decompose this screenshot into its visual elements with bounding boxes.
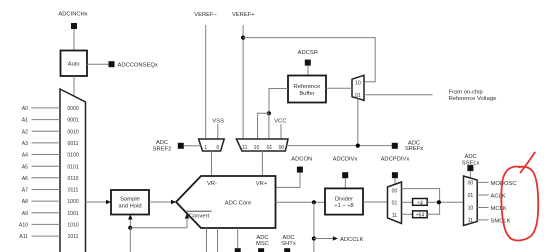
wire trigger to Convert — [130, 219, 187, 228]
wire ACLK stub — [477, 194, 488, 196]
svg-text:1000: 1000 — [67, 199, 78, 205]
wire Sample and Hold to core — [149, 201, 172, 203]
wire Auto to input mux — [73, 76, 75, 96]
VR+ mux — [236, 139, 288, 151]
wire ADC SREFx select line — [286, 145, 392, 147]
svg-text:ADC: ADC — [256, 235, 268, 241]
svg-text:ACLK: ACLK — [491, 193, 506, 199]
svg-text:01: 01 — [392, 200, 398, 206]
svg-text:ADCPDIVx: ADCPDIVx — [381, 156, 410, 162]
junction buffer output — [267, 111, 271, 115]
wire ADCCLK down — [313, 202, 315, 252]
pin Convert label with overline — [187, 210, 212, 212]
svg-text:10: 10 — [468, 205, 474, 211]
register bit square ADCCONSEQx — [109, 61, 115, 67]
register bit square ADCINCHx — [71, 23, 77, 29]
wire divide by 64 to junction — [427, 202, 439, 214]
svg-text:0100: 0100 — [67, 153, 78, 159]
svg-text:SMCLK: SMCLK — [491, 218, 511, 224]
svg-text:Divider: Divider — [335, 196, 353, 202]
arrowhead up into Convert — [185, 214, 190, 219]
svg-text:1011: 1011 — [68, 234, 79, 240]
input A6 wire — [32, 177, 61, 179]
svg-text:Reference: Reference — [294, 84, 321, 90]
svg-text:00: 00 — [468, 180, 474, 186]
arrowhead into core — [171, 200, 176, 205]
svg-text:1: 1 — [204, 145, 207, 151]
input A10 wire — [32, 223, 61, 225]
input A0 wire — [32, 107, 61, 109]
svg-text:÷4: ÷4 — [417, 200, 423, 206]
svg-text:A5: A5 — [22, 164, 28, 170]
input A2 wire — [32, 130, 61, 132]
svg-text:SREF2: SREF2 — [153, 146, 172, 152]
svg-text:VCC: VCC — [274, 118, 286, 124]
svg-text:A11: A11 — [19, 234, 28, 240]
arrowhead into S and H — [106, 200, 111, 205]
predivider mux ADCPDIVx — [388, 182, 402, 224]
register bit square ADCSR — [305, 60, 311, 66]
svg-text:0101: 0101 — [67, 164, 78, 170]
svg-text:0001: 0001 — [67, 118, 78, 124]
wire MCLK stub — [477, 207, 488, 209]
wire on-chip reference to mux input 01 — [364, 94, 433, 96]
register bit square ADC SREFx — [392, 143, 398, 149]
svg-text:ADCCONSEQx: ADCCONSEQx — [118, 63, 158, 69]
input mux (channel select) — [60, 89, 86, 252]
wire VR- mux output to core — [211, 151, 213, 176]
register bit square ADC SREF2 — [178, 143, 184, 149]
block divide by 64 — [413, 211, 428, 218]
wire trigger down (cut off) — [129, 228, 131, 252]
svg-text:A10: A10 — [19, 223, 28, 229]
register bit square below core — [235, 248, 241, 252]
svg-text:ADC: ADC — [156, 140, 168, 146]
input A9 wire — [32, 212, 61, 214]
svg-text:ADC: ADC — [282, 235, 294, 241]
svg-text:ADCCLK: ADCCLK — [340, 237, 364, 243]
junction VEREF+ branch — [241, 36, 245, 40]
svg-text:0: 0 — [216, 145, 219, 151]
wire divide by 4 to junction — [427, 201, 463, 203]
svg-text:00: 00 — [279, 145, 285, 151]
svg-text:A3: A3 — [22, 141, 28, 147]
wire ADCSR to Reference Buffer — [307, 65, 309, 75]
svg-text:0011: 0011 — [68, 141, 79, 147]
svg-text:ADCINCHx: ADCINCHx — [58, 12, 87, 18]
svg-text:Auto: Auto — [68, 62, 80, 68]
wire VSS to VR- mux input 0 — [217, 124, 219, 139]
red annotation circle around clock sources — [501, 153, 538, 241]
svg-text:and Hold: and Hold — [118, 204, 141, 210]
junction SREFx select — [356, 144, 360, 148]
svg-text:MSC: MSC — [256, 241, 269, 247]
wire ADCPDIVx to predivider mux — [394, 178, 396, 185]
register bit square ADCDIVx — [342, 172, 348, 178]
wire core to bottom square — [237, 228, 239, 248]
wire VEREF+ to reference mux — [243, 38, 375, 82]
svg-text:MCLK: MCLK — [491, 206, 507, 212]
wire predivider input 00 — [402, 189, 440, 203]
svg-text:ADC Core: ADC Core — [225, 200, 251, 206]
wire ADCCLK arrow — [314, 238, 333, 240]
wire to input 10 — [258, 113, 269, 139]
svg-text:ADCSR: ADCSR — [298, 50, 318, 56]
input A3 wire — [32, 142, 61, 144]
junction predivider input — [437, 200, 441, 204]
block Sample and Hold — [111, 190, 149, 215]
wire reference mux select down — [357, 99, 359, 146]
input A4 wire — [32, 154, 61, 156]
wire VEREF+ down to VR+ mux input 11 — [242, 25, 244, 139]
wire VR+ mux output to core — [261, 151, 263, 176]
wire SMCLK stub — [477, 219, 488, 221]
wire ADCINCHx to Auto — [73, 29, 75, 51]
svg-text:0000: 0000 — [67, 106, 78, 112]
svg-text:10: 10 — [355, 81, 361, 87]
block ADC Core — [176, 176, 276, 228]
wire sample trigger up into S and H — [129, 220, 131, 228]
input A11 wire — [32, 235, 61, 237]
clock source mux ADCSSELx — [464, 176, 478, 226]
svg-text:01: 01 — [468, 193, 474, 199]
svg-text:0111: 0111 — [68, 188, 79, 194]
svg-text:MODOSC: MODOSC — [491, 181, 517, 187]
block Auto — [61, 51, 88, 77]
wire ADCON to core — [276, 172, 301, 187]
register bit square ADC MSC — [258, 248, 264, 252]
svg-text:1010: 1010 — [67, 223, 78, 229]
svg-text:1001: 1001 — [67, 211, 78, 217]
svg-text:0110: 0110 — [68, 176, 79, 182]
wire Divider to predivider mux — [363, 201, 388, 203]
wire MODOSC stub — [477, 181, 488, 183]
wire input mux to Sample and Hold — [86, 201, 107, 203]
svg-text:ADCON: ADCON — [291, 156, 312, 162]
svg-text:01: 01 — [355, 93, 361, 99]
svg-text:Reference Voltage: Reference Voltage — [449, 96, 497, 102]
svg-text:VSS: VSS — [212, 118, 224, 124]
wire VEREF- down to VR- mux input 1 — [205, 25, 207, 139]
wire VCC to VR+ mux input 00 — [280, 124, 282, 139]
svg-text:VR-: VR- — [207, 181, 217, 187]
register bit square ADCON — [297, 167, 303, 173]
junction ADCCLK branch — [312, 200, 316, 204]
wire core bottom line 1 — [206, 228, 208, 252]
wire SREF2 to VR- mux select — [184, 145, 201, 147]
svg-text:A2: A2 — [22, 129, 28, 135]
wire Auto to ADCCONSEQx — [87, 63, 109, 65]
junction sample trigger — [128, 226, 132, 230]
block Divider — [325, 188, 363, 214]
svg-text:Convert: Convert — [189, 214, 210, 220]
svg-text:A7: A7 — [22, 188, 28, 194]
svg-text:A0: A0 — [22, 106, 28, 112]
input A8 wire — [32, 200, 61, 202]
wire predivider input 11 left — [402, 213, 413, 215]
svg-text:VEREF−: VEREF− — [194, 12, 217, 18]
svg-text:Sample: Sample — [120, 197, 140, 203]
register bit square ADC SSELx — [467, 165, 473, 171]
svg-text:SHTx: SHTx — [281, 241, 296, 247]
input A5 wire — [32, 165, 61, 167]
svg-text:ADCDIVx: ADCDIVx — [333, 156, 358, 162]
wire divider to core (ADCCLK) — [276, 201, 326, 203]
svg-text:11: 11 — [392, 213, 397, 219]
block Reference Buffer — [288, 76, 326, 103]
svg-text:From on-chip: From on-chip — [449, 90, 483, 96]
wire predivider input 01 left — [402, 201, 413, 203]
block divide by 4 — [413, 199, 428, 206]
svg-text:01: 01 — [267, 145, 273, 151]
wire SSELx to clock mux — [469, 171, 471, 179]
svg-text:11: 11 — [468, 218, 473, 224]
svg-text:11: 11 — [242, 145, 247, 151]
svg-text:A6: A6 — [22, 176, 28, 182]
register bit square ADC SHTx — [284, 248, 290, 252]
svg-text:A1: A1 — [22, 118, 28, 124]
reference mux U-ref — [352, 75, 364, 100]
arrowhead ADCCLK — [333, 236, 338, 241]
input A1 wire — [32, 119, 61, 121]
svg-text:Buffer: Buffer — [299, 91, 314, 97]
input A7 wire — [32, 189, 61, 191]
svg-text:00: 00 — [392, 188, 398, 194]
arrowhead up into S and H bottom — [128, 215, 133, 220]
junction ADCCLK out — [312, 236, 316, 240]
svg-text:A9: A9 — [22, 211, 28, 217]
svg-text:SREFx: SREFx — [405, 146, 423, 152]
register bit square ADCPDIVx — [392, 172, 398, 178]
svg-text:A4: A4 — [22, 153, 28, 159]
svg-text:A8: A8 — [22, 199, 28, 205]
wire ADCDIVx to Divider — [344, 178, 346, 189]
wire to input 01 — [268, 113, 270, 139]
svg-text:0010: 0010 — [67, 129, 78, 135]
svg-text:ADC: ADC — [464, 154, 476, 160]
VR- mux — [199, 139, 225, 151]
svg-text:10: 10 — [254, 145, 260, 151]
svg-text:VR+: VR+ — [256, 181, 268, 187]
wire reference mux output to buffer — [326, 87, 352, 89]
svg-text:÷64: ÷64 — [416, 213, 425, 219]
wire core bottom line 2 — [217, 228, 219, 252]
svg-text:÷1 – ÷8: ÷1 – ÷8 — [334, 203, 353, 209]
svg-text:VEREF+: VEREF+ — [232, 12, 255, 18]
wire buffer output to VR+ mux inputs — [269, 89, 288, 114]
